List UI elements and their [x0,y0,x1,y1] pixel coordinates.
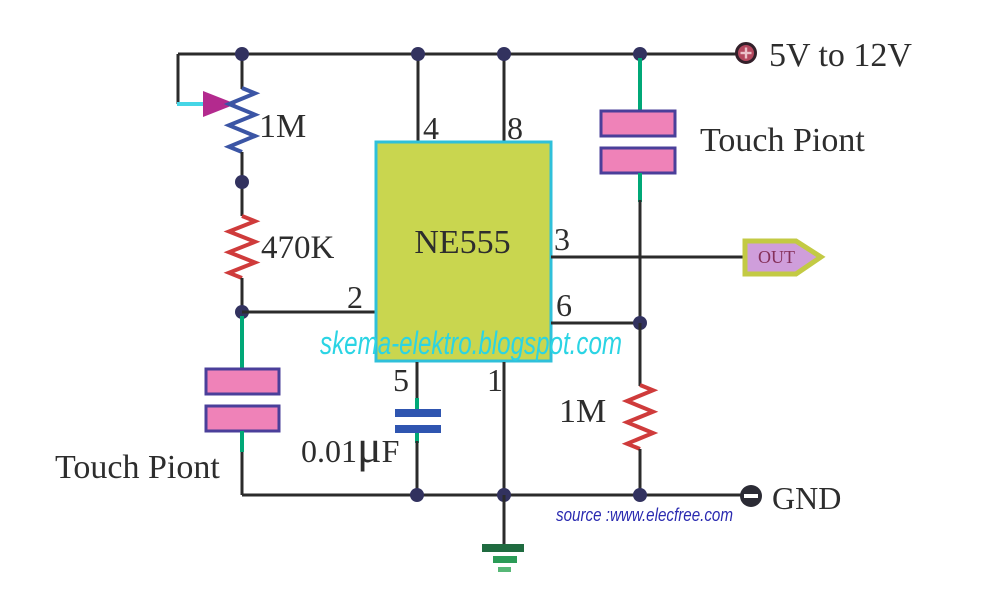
wire green cap top [415,398,419,410]
touch plate left lower [206,406,279,431]
svg-text:5V to 12V: 5V to 12V [769,37,912,74]
wire top rail [178,53,736,56]
svg-text:NE555: NE555 [414,224,510,261]
OUT flag [745,241,821,274]
svg-text:skema-elektro.blogspot.com: skema-elektro.blogspot.com [320,325,622,361]
junction dot R3-rail [633,488,647,502]
wire node 6 to R3 [639,323,642,386]
junction dot cap-rail [410,488,424,502]
touch plate right lower [601,148,675,173]
wire green cap bottom [415,433,419,443]
ground [482,544,524,572]
wire bottom rail [242,494,741,497]
wiper arrow [203,91,236,117]
svg-text:3: 3 [554,221,570,257]
wire pin 1 [503,362,506,495]
svg-text:Touch Piont: Touch Piont [55,449,220,486]
junction dot node 2 [235,305,249,319]
wire to ground [503,495,506,546]
wire R3 to rail [639,449,642,495]
wire pin 6 [551,322,640,325]
svg-text:source :www.elecfree.com: source :www.elecfree.com [556,505,733,525]
svg-text:1: 1 [487,362,503,398]
wire R2 to node 2 [241,278,244,312]
resistor R3 1M [627,385,653,449]
touch plate left upper [206,369,279,394]
junction dot top rail node 2 branch [235,47,249,61]
touch plate right upper [601,111,675,136]
junction dot top rail right branch [633,47,647,61]
wire pin 4 [417,54,420,142]
wire R1 top [241,54,244,89]
junction dot top rail pin 8 [497,47,511,61]
svg-text:1M: 1M [559,393,606,430]
wire right branch to node 6 [639,200,642,323]
wire green to touch plate left [240,316,244,369]
wire pin 2 [242,311,376,314]
wire cap to rail [416,441,419,495]
wire green below right plate [638,173,642,202]
capacitor C1 plate bottom [395,425,441,433]
svg-text:0.01μF: 0.01μF [301,421,399,472]
wire pin 5 [416,362,419,400]
wire pin 8 [503,54,506,142]
wire pin 3 to OUT [551,256,744,259]
resistor R1 1M [229,88,255,152]
wire to bottom rail [241,452,244,495]
svg-text:Touch Piont: Touch Piont [700,122,865,159]
svg-text:OUT: OUT [758,247,795,267]
power terminal plus [737,44,756,63]
ground terminal minus [740,485,762,507]
junction dot A [235,175,249,189]
svg-text:GND: GND [772,480,841,516]
wire green below left plate [240,431,244,452]
wire R1 to R2 [241,152,244,216]
wire left corner drop [177,54,180,104]
capacitor C1 plate top [395,409,441,417]
junction dot top rail pin 4 [411,47,425,61]
svg-text:6: 6 [556,287,572,323]
wire green to touch plate right [638,58,642,111]
junction dot pin1-rail [497,488,511,502]
wire cyan wiper feed [177,102,206,106]
resistor R2 470K [229,216,255,278]
svg-text:470K: 470K [261,230,335,266]
svg-text:1M: 1M [259,108,306,145]
junction dot node 6 [633,316,647,330]
op-amp U1 NE555 body [376,142,551,361]
svg-text:5: 5 [393,362,409,398]
svg-text:2: 2 [347,279,363,315]
